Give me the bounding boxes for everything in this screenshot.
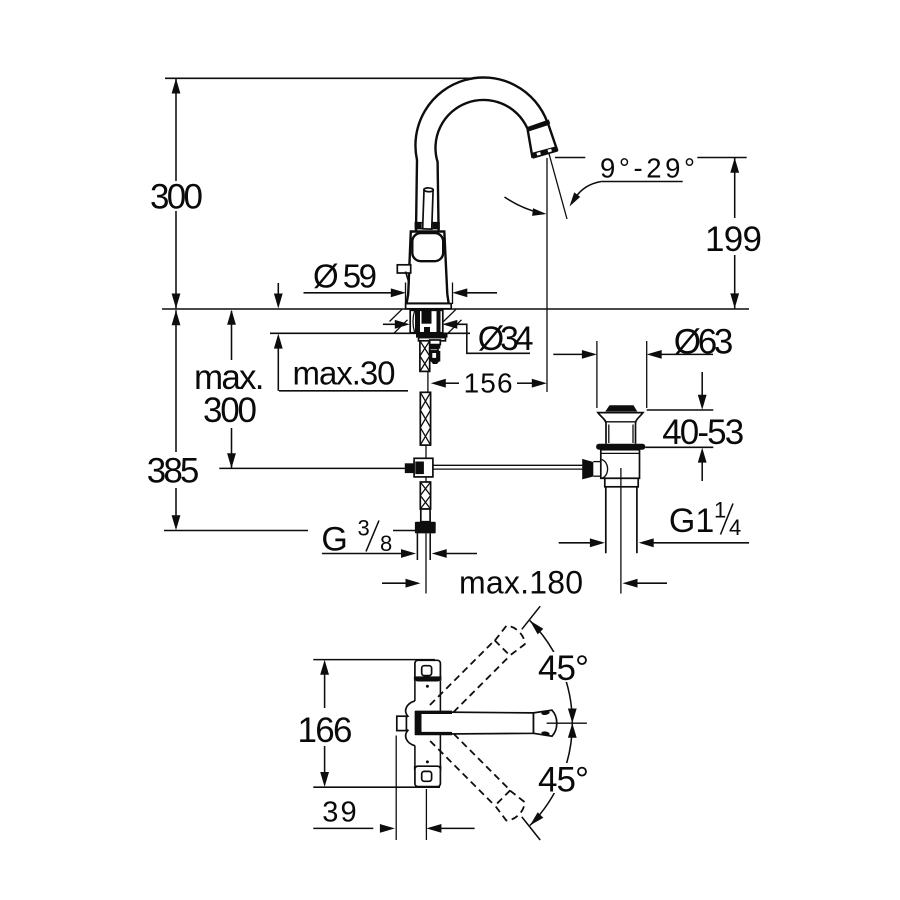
svg-text:G1: G1: [669, 502, 714, 540]
svg-text:45°: 45°: [538, 761, 589, 800]
svg-text:300: 300: [203, 391, 257, 430]
svg-text:Ø63: Ø63: [674, 323, 734, 362]
svg-text:G: G: [321, 520, 347, 558]
svg-text:8: 8: [380, 531, 392, 556]
svg-text:3: 3: [358, 516, 370, 541]
svg-text:199: 199: [705, 220, 762, 259]
svg-text:300: 300: [150, 178, 203, 217]
svg-text:156: 156: [464, 368, 513, 399]
svg-text:4: 4: [729, 515, 741, 540]
svg-text:max.30: max.30: [293, 355, 396, 392]
svg-text:166: 166: [298, 711, 353, 750]
svg-text:Ø34: Ø34: [478, 320, 534, 358]
svg-text:max.180: max.180: [459, 564, 583, 600]
svg-text:385: 385: [147, 452, 200, 491]
svg-text:1: 1: [714, 498, 726, 523]
svg-text:40-53: 40-53: [662, 413, 744, 452]
svg-text:Ø 59: Ø 59: [313, 258, 377, 295]
svg-text:45°: 45°: [538, 649, 589, 688]
